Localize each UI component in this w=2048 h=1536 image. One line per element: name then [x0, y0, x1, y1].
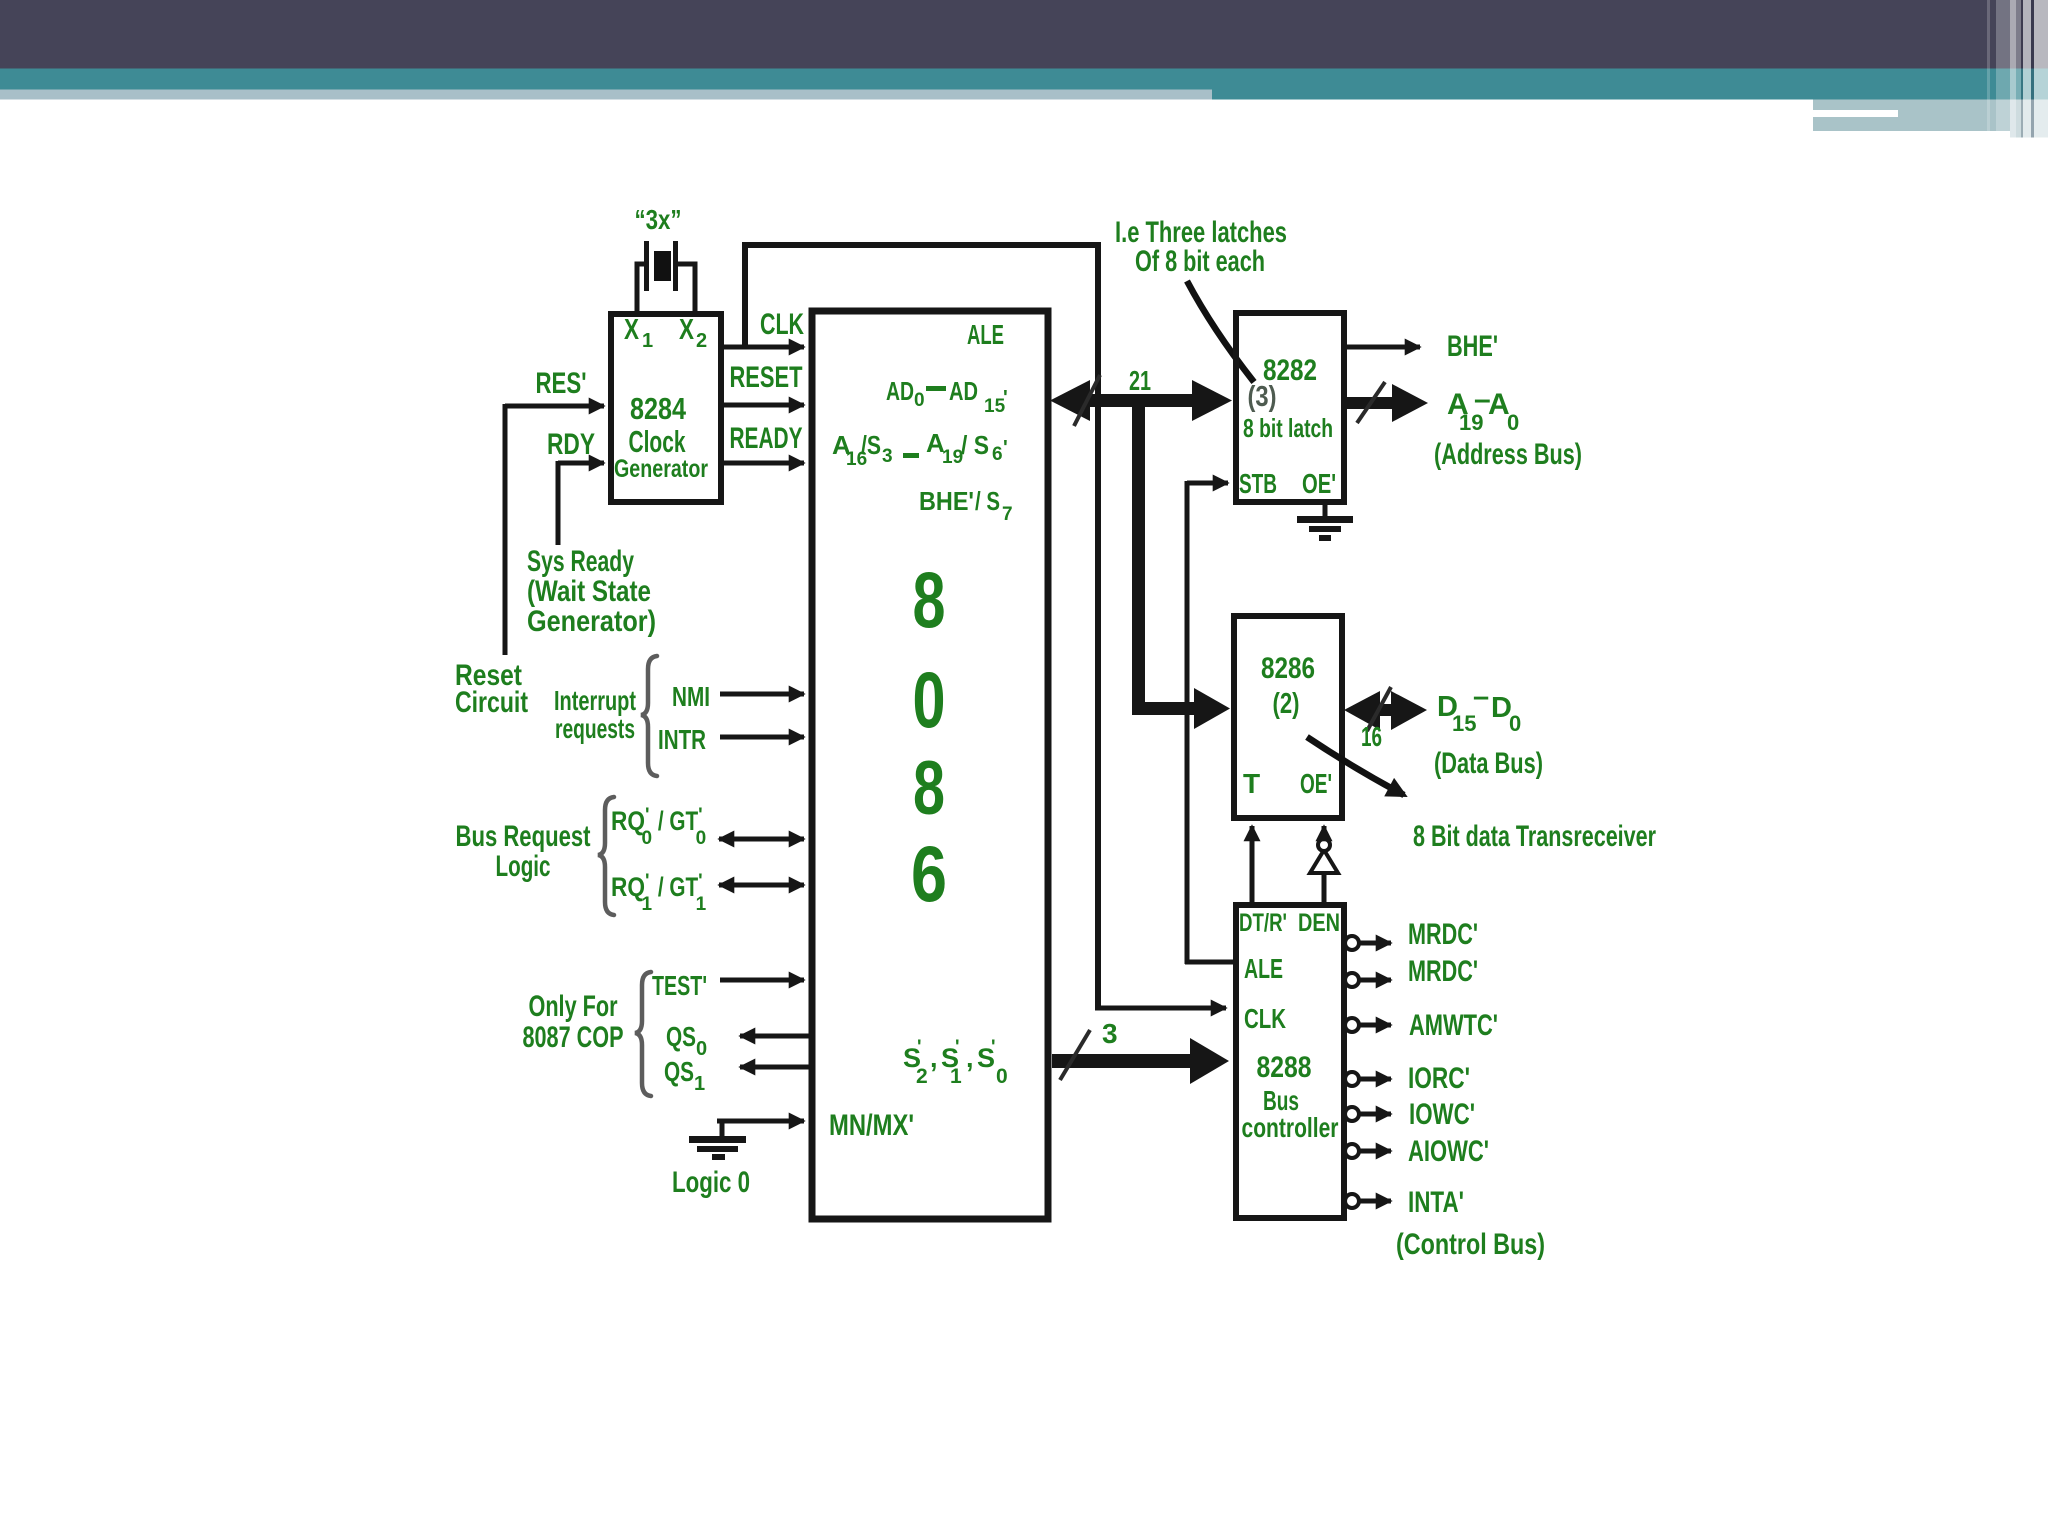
wire QS1 out [740, 1065, 810, 1070]
brace bus request [598, 797, 614, 915]
svg-text:Bus Request: Bus Request [456, 820, 591, 853]
wire ALE into 8288 [1185, 960, 1236, 965]
teal bar [0, 69, 2048, 100]
pin AMWTC' [1345, 1009, 1498, 1042]
svg-text:BHE': BHE' [1447, 330, 1498, 363]
pin IOWC' [1345, 1098, 1475, 1131]
svg-text:(3): (3) [1248, 381, 1277, 413]
wire CLK out of 8284 [721, 345, 804, 350]
inverter bubble [1318, 839, 1330, 851]
svg-text:8284: 8284 [630, 391, 687, 426]
svg-text:RDY: RDY [547, 428, 595, 461]
svg-text:IOWC': IOWC' [1409, 1098, 1475, 1131]
svg-text:DT/R': DT/R' [1239, 909, 1287, 937]
svg-text:AD0AD15': AD0AD15' [886, 376, 1008, 417]
svg-text:Circuit: Circuit [455, 686, 528, 719]
brace interrupts [641, 656, 657, 776]
svg-text:CLK: CLK [760, 308, 804, 341]
svg-text:QS1: QS1 [664, 1056, 705, 1095]
svg-text:T: T [1243, 768, 1260, 799]
wire T input from 8288 [1250, 826, 1255, 903]
wire READY out of 8284 [721, 461, 804, 466]
svg-text:OE': OE' [1300, 768, 1332, 799]
bus slash A [1357, 382, 1385, 423]
svg-text:RQ'0 / GT'0: RQ'0 / GT'0 [611, 805, 706, 849]
svg-text:X2: X2 [679, 314, 707, 352]
svg-text:AIOWC': AIOWC' [1408, 1135, 1489, 1168]
wire RQ1/GT1 bidirectional [719, 883, 804, 888]
svg-text:(Address Bus): (Address Bus) [1434, 438, 1582, 471]
white stripe in band [1813, 110, 1898, 117]
svg-text:READY: READY [730, 422, 803, 455]
bus vertical AD trunk [1132, 400, 1145, 712]
bus into 8286 [1132, 688, 1230, 729]
svg-text:A19–A0: A19–A0 [1447, 383, 1519, 435]
svg-text:MN/MX': MN/MX' [829, 1109, 914, 1142]
svg-text:(Control Bus): (Control Bus) [1396, 1228, 1545, 1261]
svg-text:21: 21 [1129, 365, 1151, 396]
crystal XTAL [637, 241, 695, 313]
svg-text:8: 8 [913, 746, 945, 831]
bus slash 21 [1074, 375, 1100, 426]
svg-text:Logic 0: Logic 0 [672, 1166, 750, 1199]
svg-text:RESET: RESET [730, 361, 803, 394]
wire sys-ready vertical [556, 461, 561, 545]
svg-text:Generator: Generator [614, 455, 708, 483]
wire TEST' [720, 978, 804, 983]
annotation arrow to transceiver text [1307, 737, 1404, 795]
svg-text:0: 0 [913, 655, 946, 744]
svg-text:MRDC': MRDC' [1408, 955, 1478, 988]
clock generator U1 8284 box [611, 314, 721, 502]
svg-text:Clock: Clock [629, 424, 687, 459]
bus A19-A0 out [1344, 384, 1428, 422]
bus slash 3 [1060, 1030, 1090, 1080]
inverter triangle [1310, 850, 1338, 873]
svg-text:8: 8 [913, 555, 946, 644]
svg-text:8087 COP: 8087 COP [523, 1021, 624, 1054]
wire DEN to inverter [1322, 872, 1327, 903]
bus D15-D0 bidirectional [1344, 691, 1427, 730]
svg-text:(Data Bus): (Data Bus) [1434, 747, 1543, 780]
svg-text:8288: 8288 [1257, 1051, 1312, 1084]
svg-text:Of 8 bit each: Of 8 bit each [1135, 245, 1265, 278]
svg-text:OE': OE' [1302, 468, 1336, 499]
wire RES' into 8284 [505, 404, 604, 409]
wire clock drop to 8288 [1095, 245, 1101, 1008]
svg-text:8286: 8286 [1261, 652, 1315, 685]
svg-text:3: 3 [1102, 1018, 1118, 1049]
svg-text:Only For: Only For [529, 990, 618, 1023]
bus slash 16 [1367, 687, 1391, 731]
brace only-for [635, 972, 651, 1096]
svg-text:(Wait State: (Wait State [527, 575, 651, 608]
transceiver U4 8286 box [1234, 616, 1342, 818]
right light band [1813, 100, 2048, 132]
svg-text:TEST': TEST' [652, 970, 707, 1001]
svg-text:ALE: ALE [1244, 953, 1283, 984]
annotation line to (3) [1187, 281, 1254, 382]
svg-text:A16/S3A19/ S6': A16/S3A19/ S6' [832, 428, 1008, 470]
wire STB input [1187, 481, 1228, 486]
svg-text:CLK: CLK [1244, 1003, 1286, 1034]
wire bubble to OE' [1322, 826, 1327, 839]
pin IORC' [1345, 1062, 1470, 1095]
wire stub to ground [720, 1121, 725, 1136]
svg-text:controller: controller [1242, 1112, 1339, 1143]
wire NMI [720, 692, 804, 697]
bus S2S1S0 into 8288 [1052, 1038, 1229, 1084]
svg-text:RQ'1 / GT'1: RQ'1 / GT'1 [611, 871, 707, 915]
svg-text:8 bit latch: 8 bit latch [1243, 413, 1333, 443]
wire CLK riser junction [742, 242, 748, 347]
svg-text:INTA': INTA' [1408, 1186, 1464, 1219]
svg-text:6: 6 [911, 829, 947, 918]
wire RQ0/GT0 bidirectional [719, 837, 804, 842]
svg-text:8 Bit data Transreceiver: 8 Bit data Transreceiver [1413, 820, 1656, 853]
svg-text:Sys Ready: Sys Ready [527, 545, 634, 578]
vertical stripes top-right [1987, 0, 2048, 138]
CPU U2 8086 box [812, 311, 1048, 1219]
svg-text:MRDC': MRDC' [1408, 918, 1478, 951]
svg-text:STB: STB [1239, 468, 1277, 499]
svg-text:ALE: ALE [967, 319, 1004, 350]
ground logic0 [689, 1136, 746, 1160]
svg-text:16: 16 [1361, 721, 1382, 752]
bus AD0-AD15 bidirectional 8086<->8282 [1050, 380, 1232, 421]
wire reset circuit vertical [503, 404, 508, 655]
latch U3 8282 box [1236, 313, 1344, 502]
pin MRDC' 2 [1345, 955, 1478, 988]
svg-text:RES': RES' [536, 367, 587, 400]
svg-text:DEN: DEN [1298, 909, 1340, 937]
left light strip [0, 90, 1212, 100]
wire INTR [720, 735, 804, 740]
wire RESET out of 8284 [721, 403, 804, 408]
wire RDY into 8284 [558, 461, 604, 466]
svg-text:Generator): Generator) [527, 605, 656, 638]
ground under 8282 [1323, 502, 1328, 518]
svg-text:AMWTC': AMWTC' [1409, 1009, 1498, 1042]
svg-text:Logic: Logic [496, 850, 551, 883]
svg-text:D15–D0: D15–D0 [1437, 681, 1521, 736]
svg-text:S'2,S'1,S'0: S'2,S'1,S'0 [903, 1037, 1008, 1088]
svg-text:X1: X1 [624, 314, 653, 352]
svg-text:QS0: QS0 [666, 1021, 707, 1060]
svg-text:Interrupt: Interrupt [554, 685, 636, 716]
svg-text:INTR: INTR [658, 724, 706, 755]
header dark bar [0, 0, 2048, 69]
svg-text:IORC': IORC' [1408, 1062, 1470, 1095]
wire MN/MX' input [717, 1119, 804, 1124]
wire top clock run [742, 242, 1101, 248]
svg-text:BHE'/ S7: BHE'/ S7 [919, 486, 1013, 525]
svg-text:NMI: NMI [672, 681, 710, 712]
wire CLK into 8288 [1095, 1006, 1226, 1011]
svg-text:(2): (2) [1273, 688, 1300, 720]
svg-text:requests: requests [555, 713, 635, 744]
bus controller U5 8288 box [1236, 905, 1344, 1218]
svg-text:“3x”: “3x” [635, 204, 682, 235]
pin INTA' [1345, 1186, 1464, 1219]
pin AIOWC' [1345, 1135, 1489, 1168]
pin MRDC' 1 [1345, 918, 1478, 951]
wire QS0 out [740, 1034, 810, 1039]
wire ALE-STB vertical [1185, 481, 1190, 964]
wire BHE' out [1344, 345, 1420, 350]
